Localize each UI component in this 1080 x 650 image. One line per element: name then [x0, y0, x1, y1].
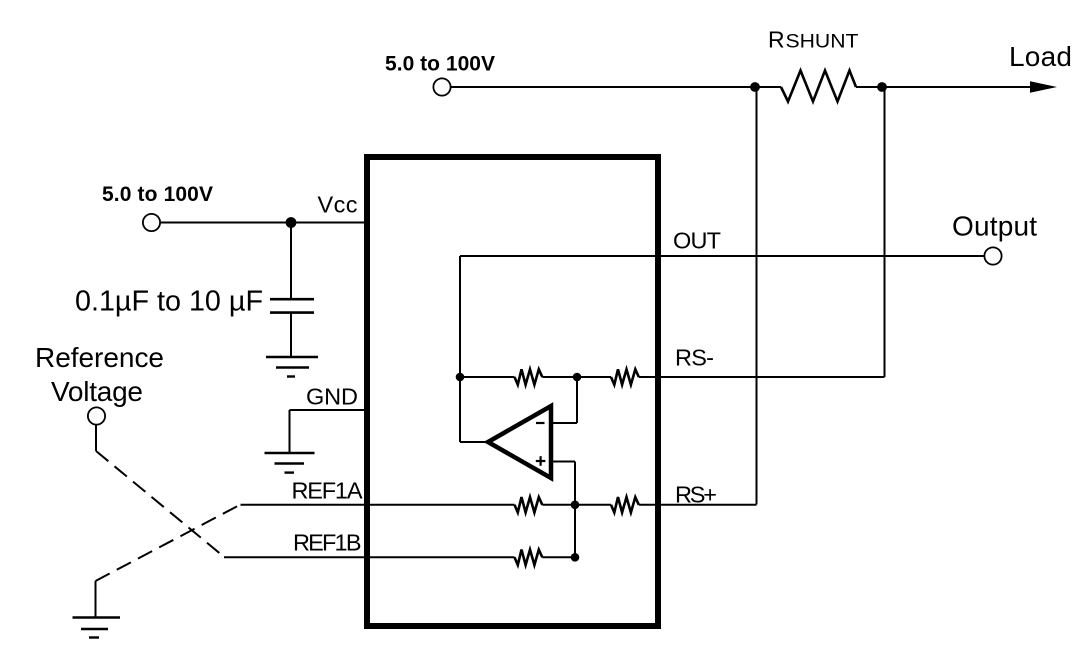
- svg-text:0.1µF to 10 µF: 0.1µF to 10 µF: [75, 286, 263, 318]
- svg-text:Load: Load: [1009, 41, 1072, 72]
- svg-text:SHUNT: SHUNT: [786, 32, 859, 53]
- svg-text:5.0 to 100V: 5.0 to 100V: [102, 183, 213, 206]
- svg-text:REF1B: REF1B: [293, 530, 362, 556]
- svg-text:OUT: OUT: [673, 228, 721, 254]
- svg-text:RS-: RS-: [675, 345, 714, 371]
- svg-text:5.0 to 100V: 5.0 to 100V: [385, 53, 495, 76]
- svg-text:Reference: Reference: [35, 342, 164, 373]
- svg-text:Vcc: Vcc: [318, 192, 358, 218]
- svg-text:R: R: [768, 27, 785, 53]
- svg-text:Output: Output: [952, 211, 1037, 242]
- svg-text:REF1A: REF1A: [292, 478, 363, 504]
- svg-text:GND: GND: [306, 384, 358, 410]
- svg-text:Voltage: Voltage: [51, 376, 143, 407]
- svg-text:RS+: RS+: [675, 482, 717, 508]
